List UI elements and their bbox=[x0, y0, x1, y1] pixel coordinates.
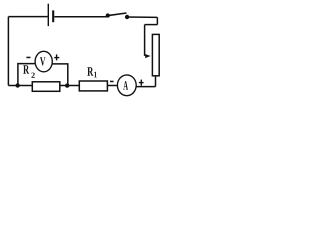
wire bottom rail left bbox=[8, 85, 32, 87]
junction node dot left bbox=[16, 83, 20, 87]
rheostat body bbox=[152, 34, 159, 75]
wire R2 to R1 rail bbox=[60, 85, 80, 87]
battery long plate bbox=[47, 4, 49, 26]
wire rheostat to ammeter bbox=[136, 86, 155, 88]
resistor R1 box bbox=[79, 81, 107, 91]
wire right corner down bbox=[156, 17, 158, 24]
voltmeter V glyph bbox=[40, 57, 45, 65]
wire R1 to ammeter bbox=[107, 85, 117, 87]
wire switch to top-right corner bbox=[127, 16, 157, 18]
switch contact dot left bbox=[106, 13, 110, 17]
ammeter minus label bbox=[110, 81, 114, 83]
battery short thick plate bbox=[52, 10, 54, 22]
ammeter circle bbox=[117, 75, 136, 96]
label R1 subscript 1 bbox=[94, 72, 97, 78]
wire left vertical bbox=[7, 17, 9, 86]
ammeter A glyph bbox=[123, 81, 128, 90]
wire voltmeter left branch bbox=[18, 64, 35, 86]
voltmeter plus label bbox=[54, 54, 59, 60]
wire rheostat bottom stub bbox=[155, 76, 157, 87]
label R2 subscript 2 bbox=[31, 73, 34, 78]
wire slider arm down bbox=[144, 25, 146, 56]
wire battery to switch bbox=[54, 16, 108, 18]
slider arrow head bbox=[145, 54, 150, 58]
switch contact dot right bbox=[125, 15, 129, 19]
label R1 letter R bbox=[87, 67, 93, 75]
wire voltmeter right branch bbox=[52, 64, 68, 86]
resistor R2 box bbox=[32, 82, 60, 92]
junction node dot right bbox=[65, 83, 69, 87]
voltmeter circle bbox=[35, 51, 52, 72]
label R2 letter R bbox=[23, 65, 29, 74]
wire top, left corner to battery bbox=[8, 16, 47, 18]
ammeter plus label bbox=[139, 80, 144, 86]
switch lever bbox=[108, 13, 127, 16]
wire jog left bbox=[145, 24, 158, 26]
voltmeter minus label bbox=[26, 57, 30, 59]
